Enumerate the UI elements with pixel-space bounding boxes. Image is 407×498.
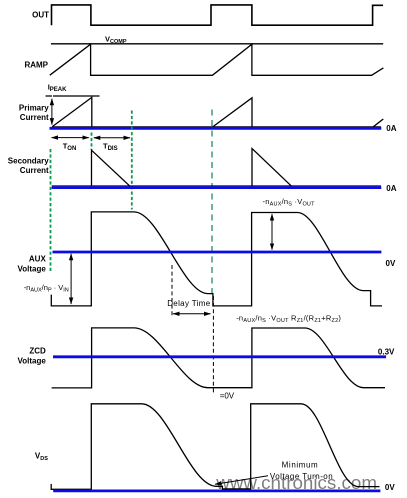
- AUX measure arrow 1: [70, 254, 72, 304]
- minimum turn-on pointer arrow: [215, 476, 268, 485]
- svg-text:ZCD: ZCD: [29, 347, 46, 356]
- IPEAK level line: [46, 95, 100, 97]
- svg-text:Voltage: Voltage: [17, 356, 46, 365]
- OUT waveform: [52, 5, 384, 25]
- RAMP waveform: [50, 44, 384, 75]
- svg-text:AUX: AUX: [29, 255, 47, 264]
- VDS waveform: [51, 404, 379, 490]
- svg-text:OUT: OUT: [32, 10, 49, 19]
- delay time arrow: [173, 313, 211, 315]
- green dashed line G3: [211, 110, 213, 296]
- svg-text:Delay Time: Delay Time: [167, 299, 211, 308]
- green dashed line G2: [131, 111, 133, 210]
- AUX waveform: [51, 212, 382, 306]
- secondary current triangle 1: [92, 150, 130, 186]
- svg-text:Minimum: Minimum: [282, 461, 319, 470]
- svg-text:RAMP: RAMP: [24, 61, 48, 70]
- dashed marker line 1: [171, 265, 173, 316]
- svg-text:0V: 0V: [385, 483, 395, 492]
- svg-text:0.3V: 0.3V: [378, 348, 395, 357]
- svg-text:=0V: =0V: [220, 392, 235, 401]
- dashed marker line 2: [212, 296, 214, 393]
- secondary 0A blue line: [52, 186, 382, 189]
- VDS 0V blue line: [53, 489, 380, 492]
- svg-text:0V: 0V: [386, 259, 396, 268]
- ZCD 0.3V blue line: [53, 355, 386, 358]
- svg-text:Current: Current: [20, 113, 49, 122]
- secondary current triangle 2: [252, 149, 292, 187]
- TON arrow: [52, 137, 89, 139]
- svg-text:Voltage: Voltage: [17, 265, 46, 274]
- ZCD waveform: [52, 328, 385, 388]
- svg-text:Primary: Primary: [19, 103, 49, 112]
- IPEAK measure arrow: [51, 99, 53, 125]
- green dashed line G2b: [91, 133, 93, 151]
- TDIS arrow: [94, 137, 130, 139]
- svg-text:Current: Current: [20, 166, 49, 175]
- AUX 0V blue line: [53, 251, 382, 254]
- svg-text:0A: 0A: [386, 124, 396, 133]
- VCOMP level line: [51, 43, 383, 45]
- primary current zero line: [52, 126, 381, 128]
- primary current ramp 3: [373, 119, 383, 127]
- svg-text:Secondary: Secondary: [8, 156, 49, 165]
- primary current triangle 2: [213, 98, 252, 127]
- svg-text:0A: 0A: [386, 184, 396, 193]
- primary 0A blue line: [50, 127, 382, 130]
- svg-text:www.cntronics.com: www.cntronics.com: [215, 472, 377, 493]
- primary current triangle 1: [52, 97, 92, 126]
- secondary current zero line: [52, 185, 381, 187]
- AUX measure arrow 2: [271, 214, 273, 250]
- green dashed line G1: [50, 149, 52, 271]
